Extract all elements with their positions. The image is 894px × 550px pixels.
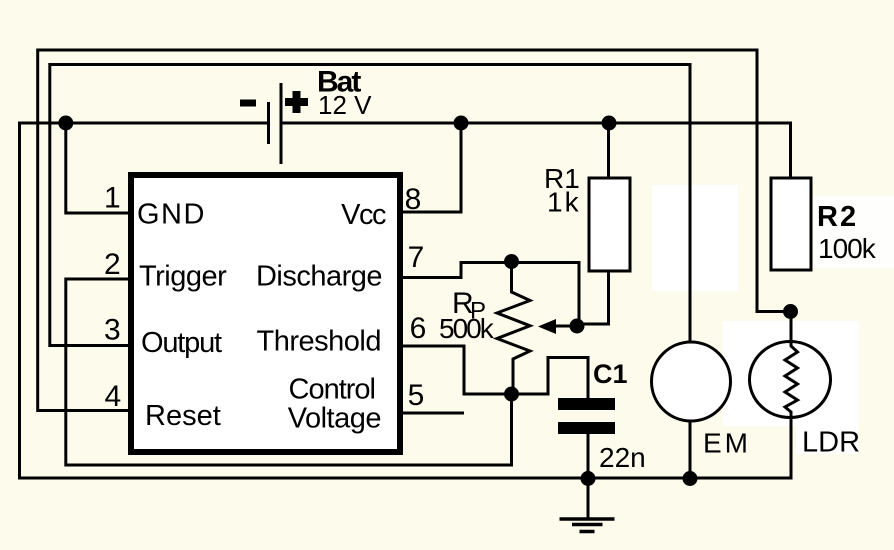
capacitor C1 top plate — [558, 398, 615, 410]
junction node RP bottom / threshold — [504, 387, 519, 402]
svg-text:Reset: Reset — [145, 400, 221, 432]
capacitor C1 bottom plate — [558, 422, 615, 434]
svg-text:100k: 100k — [818, 233, 877, 264]
svg-text:Voltage: Voltage — [288, 403, 381, 435]
wire C1 bottom lead to ground bus — [587, 434, 590, 478]
white patch behind LDR circle — [723, 321, 859, 426]
wire threshold node to C1 top (jog) — [512, 358, 589, 400]
wire output net: pin3 left, up, along second top wire, down to EM top — [50, 65, 690, 346]
wire +12V rail: battery plus to R2 top — [282, 123, 791, 178]
LDR circle — [750, 342, 831, 418]
LDR zigzag element — [785, 342, 798, 418]
junction node C1 / ground bus — [581, 471, 596, 486]
svg-text:3: 3 — [104, 314, 121, 347]
wire pin1 GND to minus rail — [66, 123, 128, 213]
svg-text:Trigger: Trigger — [139, 261, 227, 293]
wire battery minus, left ground rail down, bottom ground bus, to LDR bottom — [20, 123, 792, 478]
svg-text:Control: Control — [289, 374, 376, 406]
svg-text:Vcc: Vcc — [341, 199, 386, 231]
svg-text:Discharge: Discharge — [256, 261, 382, 293]
svg-text:LDR: LDR — [802, 427, 860, 459]
junction node Vcc rail — [454, 116, 469, 131]
svg-text:5: 5 — [408, 379, 425, 412]
svg-text:4: 4 — [105, 380, 122, 413]
white patch behind R2 label — [813, 196, 894, 268]
ground symbol — [587, 479, 590, 518]
svg-text:6: 6 — [410, 312, 427, 345]
battery plus sign — [285, 91, 308, 113]
wire EM bottom lead to ground bus — [689, 421, 692, 478]
svg-text:7: 7 — [408, 241, 425, 274]
svg-text:EM: EM — [703, 428, 751, 459]
junction node EM / ground bus — [683, 471, 698, 486]
battery Bat negative plate — [267, 102, 270, 144]
svg-text:1: 1 — [104, 182, 121, 215]
junction node R2 / LDR / reset — [783, 304, 798, 319]
junction node pin1/GND rail — [58, 116, 73, 131]
battery Bat positive plate — [280, 83, 283, 164]
wire R1 bottom lead to wiper node — [577, 271, 609, 324]
resistor R2 body — [771, 178, 811, 270]
svg-text:8: 8 — [405, 183, 422, 216]
wire pin5 control voltage stub — [403, 412, 464, 415]
wire LDR top lead from node — [790, 312, 793, 343]
wire pin6 threshold to RP bottom node — [403, 346, 512, 394]
wire pin7 discharge to RP top and wiper branch — [403, 263, 579, 327]
svg-text:2: 2 — [104, 248, 121, 281]
wire pin2 trigger: left, down, along bottom, up to threshold node — [66, 279, 512, 465]
potentiometer RP zigzag element — [497, 262, 530, 394]
junction node RP top / discharge — [504, 254, 519, 269]
wire reset net: pin4 left, up, along top, down right side to LDR/R2 node — [38, 50, 789, 411]
svg-text:GND: GND — [137, 199, 206, 231]
svg-text:12 V: 12 V — [318, 90, 372, 120]
battery minus sign — [240, 100, 256, 107]
svg-text:500k: 500k — [439, 313, 495, 344]
white patch behind LDR label — [796, 424, 858, 454]
svg-text:Threshold: Threshold — [257, 326, 381, 358]
svg-text:22n: 22n — [599, 442, 646, 473]
wire pin8 Vcc to +12V rail — [403, 123, 461, 212]
svg-text:C1: C1 — [593, 359, 628, 389]
junction node R1 top rail — [602, 116, 617, 131]
electromagnet EM circle — [652, 342, 731, 421]
wire R1 top lead — [607, 123, 610, 178]
svg-text:R2: R2 — [817, 201, 858, 233]
potentiometer RP wiper arrow — [554, 325, 577, 328]
svg-text:Output: Output — [141, 327, 222, 359]
junction node wiper / R1 bottom — [570, 319, 585, 334]
svg-text:1k: 1k — [547, 187, 581, 218]
resistor R1 body — [589, 178, 630, 271]
white patch near EM wire — [652, 185, 738, 291]
IC U1 555 timer body — [131, 175, 400, 452]
